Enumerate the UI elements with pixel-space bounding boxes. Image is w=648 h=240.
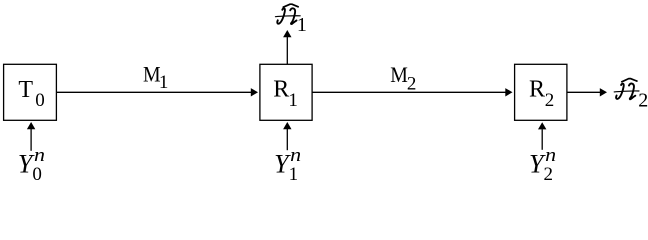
svg-text:0: 0 xyxy=(32,164,42,183)
wire M2 arrow R1->R2 xyxy=(312,88,512,96)
label M1 xyxy=(143,61,168,93)
label M2 xyxy=(390,62,416,95)
svg-text:R: R xyxy=(529,76,545,102)
label T0 xyxy=(18,77,44,111)
box T0 xyxy=(4,64,57,120)
svg-text:2: 2 xyxy=(544,164,554,183)
svg-text:1: 1 xyxy=(159,72,169,93)
svg-text:n: n xyxy=(34,145,45,166)
wire input arrow into R1 bottom xyxy=(283,122,291,150)
label Y1^n xyxy=(274,145,301,185)
wire input arrow into R2 bottom xyxy=(538,122,546,150)
box R2 xyxy=(515,64,567,120)
wire M1 arrow T0->R1 xyxy=(56,88,258,96)
label R1 xyxy=(273,76,298,111)
label H-hat_2 (estimate out of R2) xyxy=(614,79,648,112)
svg-text:1: 1 xyxy=(289,164,299,183)
wire output arrow R2 right xyxy=(567,88,607,96)
svg-text:n: n xyxy=(545,145,556,166)
svg-text:1: 1 xyxy=(288,90,298,111)
wire up arrow out of R1 top xyxy=(283,30,291,64)
svg-text:1: 1 xyxy=(297,14,307,36)
label Y0^n xyxy=(18,145,45,185)
svg-text:2: 2 xyxy=(407,74,417,95)
wire input arrow into T0 bottom xyxy=(27,122,35,151)
box R1 xyxy=(260,64,312,120)
svg-text:2: 2 xyxy=(545,90,555,111)
svg-text:2: 2 xyxy=(638,89,648,111)
label H-hat_1 (estimate out of R1) xyxy=(275,4,307,36)
label R2 xyxy=(529,76,554,111)
label Y2^n xyxy=(529,145,556,185)
svg-text:0: 0 xyxy=(35,90,45,111)
svg-text:n: n xyxy=(290,145,301,166)
svg-text:R: R xyxy=(273,76,289,102)
svg-text:T: T xyxy=(18,77,33,103)
svg-text:M: M xyxy=(390,62,408,87)
